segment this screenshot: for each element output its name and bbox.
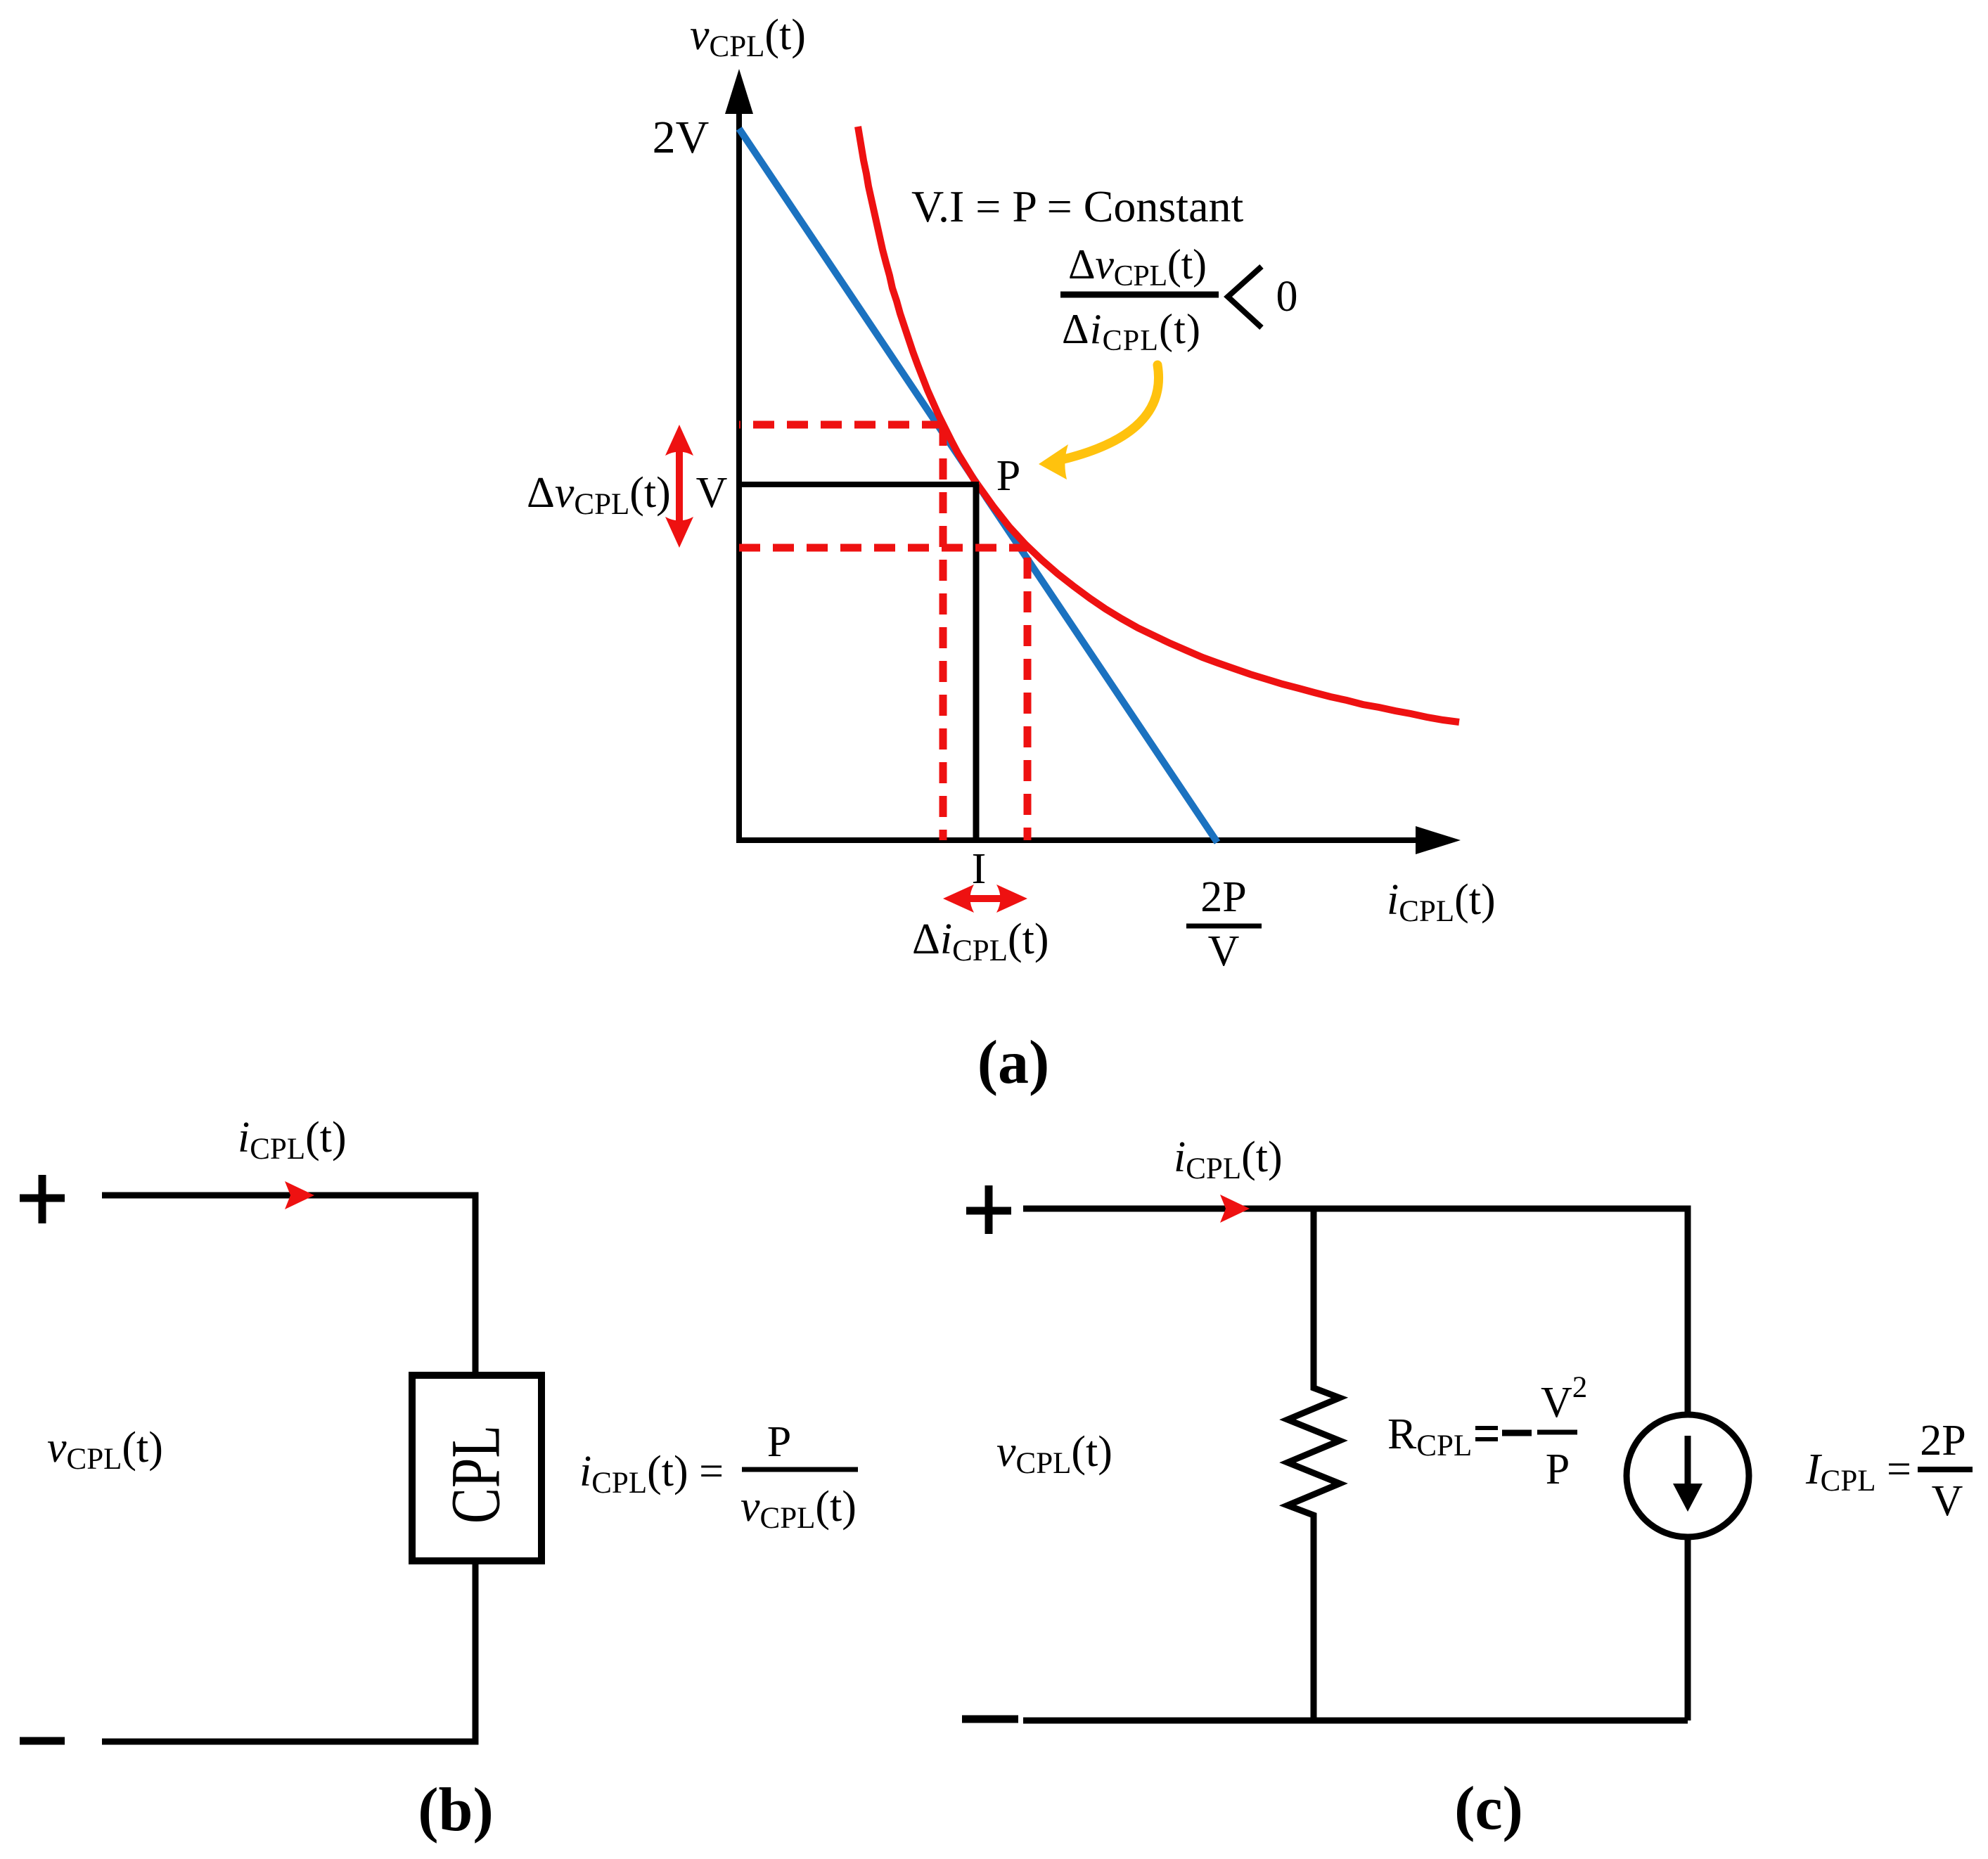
current source I_CPL [1627,1415,1749,1537]
svg-text:P: P [1546,1446,1570,1493]
red dashed horizontal line (upper perturbation) [739,421,943,429]
blue load line [739,129,1217,842]
svg-text:V: V [1208,927,1240,975]
svg-text:(b): (b) [418,1776,494,1844]
yellow annotation arrow [1039,365,1159,480]
plus terminal (b) [20,1175,65,1223]
minus terminal (c) [962,1716,1018,1723]
top wire (b) [102,1195,475,1375]
x-axis [736,826,1461,854]
y-axis [725,69,753,840]
current direction arrow (c) [1220,1195,1250,1223]
minus terminal (b) [20,1737,65,1745]
svg-text:2P: 2P [1200,873,1246,921]
x-intercept label 2P/V (fraction) [1186,873,1262,975]
solid black operating-point line I (vertical) [973,484,980,840]
svg-text:P: P [767,1418,791,1466]
current direction arrow (b) [285,1181,314,1209]
label I_CPL = 2P/V [1805,1417,1973,1525]
svg-text:P: P [996,452,1020,500]
svg-text:2V: 2V [653,112,710,163]
CPL box [412,1375,541,1561]
solid black operating-point line V (horizontal) [739,482,979,487]
wire below current source (c) [1685,1537,1691,1720]
svg-text:(c): (c) [1454,1775,1523,1843]
plus terminal (c) [966,1185,1011,1234]
svg-text:2P: 2P [1920,1417,1965,1465]
red vertical double arrow (delta v) [665,425,693,548]
red dashed vertical line (left perturbation) [940,425,947,840]
svg-text:I: I [972,845,987,893]
svg-text:V: V [1932,1477,1963,1525]
svg-text:V: V [696,469,728,517]
svg-text:CPL: CPL [437,1425,515,1524]
red dashed horizontal line (lower perturbation) [739,544,1027,552]
bottom wire (c) [1023,1718,1688,1724]
top wire (c) [1023,1209,1688,1415]
svg-text:(a): (a) [977,1029,1050,1097]
red dashed vertical line (right perturbation) [1024,548,1032,840]
red constant-power hyperbola [858,127,1459,722]
equation i_CPL(t) = P / v_CPL(t) [579,1418,858,1535]
svg-text:0: 0 [1276,273,1298,321]
bottom wire (b) [102,1561,475,1742]
red horizontal double arrow (delta i) [943,885,1027,913]
resistor R_CPL branch [1288,1209,1340,1720]
svg-text:V.I = P = Constant: V.I = P = Constant [911,181,1243,231]
label R_CPL = -V^2/P [1387,1371,1587,1493]
annotation fraction delta v / delta i < 0 [1060,241,1298,357]
